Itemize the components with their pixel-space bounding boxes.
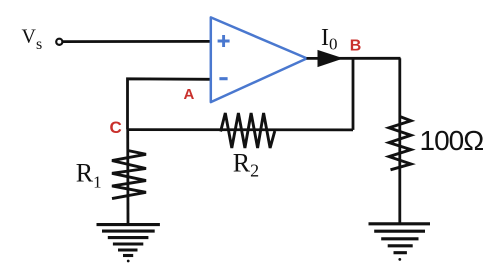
svg-text:Vs: Vs (22, 26, 43, 54)
svg-text:R1: R1 (76, 159, 102, 192)
terminal node Vs (56, 39, 62, 45)
svg-text:100Ω: 100Ω (420, 125, 484, 156)
wire Vs to op-amp noninverting input (63, 40, 211, 43)
wire inverting input to node C (128, 79, 212, 130)
resistor R2 (221, 113, 275, 148)
svg-text:B: B (350, 38, 362, 55)
ground left (97, 225, 160, 263)
resistor R1 (112, 151, 146, 199)
svg-text:C: C (110, 118, 122, 137)
wire node B down to ground through 100ohm (398, 58, 401, 224)
svg-text:A: A (184, 86, 195, 103)
ground right (369, 224, 431, 261)
wire node B down to feedback line (352, 59, 355, 130)
svg-text:R2: R2 (233, 148, 259, 180)
wire node C to node B (feedback path) (128, 128, 354, 131)
resistor 100ohm (389, 117, 411, 170)
wire op-amp output to corner (307, 57, 401, 60)
svg-text:I0: I0 (321, 25, 338, 54)
op-amp + pin marking (218, 35, 230, 47)
op-amp U1 (211, 17, 307, 102)
current arrow I0 (318, 50, 344, 67)
op-amp - pin marking (219, 77, 227, 80)
wire node C down to ground through R1 (126, 129, 129, 225)
